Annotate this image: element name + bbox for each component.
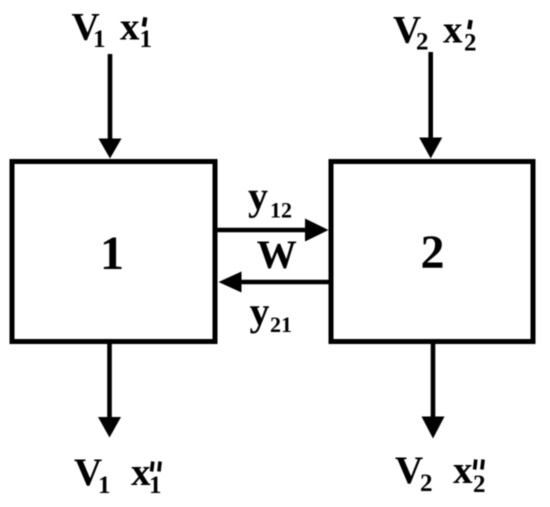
label y21 <box>250 289 293 337</box>
svg-text:2: 2 <box>416 29 429 56</box>
svg-text:2: 2 <box>473 471 486 498</box>
svg-text:1: 1 <box>93 26 106 53</box>
product arrow out of box 1 <box>98 344 121 438</box>
svg-text:y: y <box>250 289 270 334</box>
svg-text:V: V <box>395 449 423 492</box>
svg-text:x: x <box>453 449 473 492</box>
feed arrow into box 2 <box>419 52 442 159</box>
svg-text:2: 2 <box>421 226 445 279</box>
label y12 <box>248 173 292 222</box>
svg-text:x: x <box>443 8 463 51</box>
svg-text:W: W <box>257 232 297 277</box>
svg-text:2: 2 <box>464 30 477 57</box>
svg-text:1: 1 <box>100 227 124 280</box>
product arrow out of box 2 <box>422 344 445 439</box>
product label V2 x2'' <box>395 449 486 498</box>
svg-text:y: y <box>248 173 268 218</box>
svg-text:1: 1 <box>149 472 162 499</box>
feed label V1 x1' <box>72 6 153 54</box>
feed label V2 x2' <box>393 8 477 56</box>
svg-text:x: x <box>120 6 140 49</box>
feed arrow into box 1 <box>99 54 122 159</box>
box 1 <box>12 162 215 342</box>
svg-text:2: 2 <box>420 470 433 497</box>
stream arrow y21 from box 2 to box 1 <box>219 272 332 293</box>
stream arrow y12 from box 1 to box 2 <box>214 219 329 242</box>
svg-text:1: 1 <box>140 26 153 53</box>
svg-text:1: 1 <box>98 472 111 499</box>
svg-text:12: 12 <box>270 198 292 223</box>
svg-text:21: 21 <box>270 312 292 337</box>
box 2 <box>331 162 533 342</box>
product label V1 x1'' <box>74 451 162 499</box>
svg-text:x: x <box>131 451 151 494</box>
